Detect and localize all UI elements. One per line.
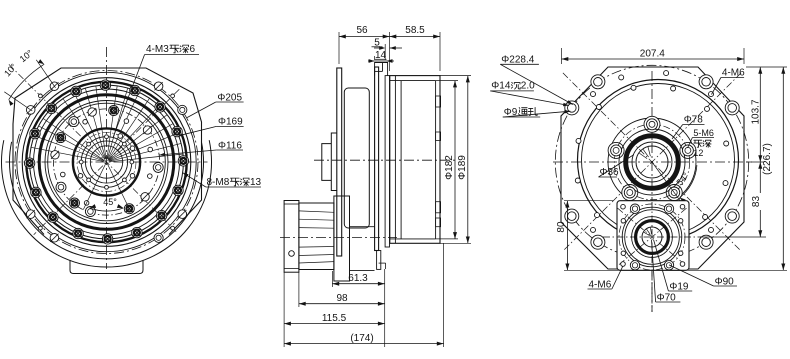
middle view reducer housing xyxy=(344,88,369,228)
middle view motor end cap xyxy=(284,201,299,273)
svg-text:103.7: 103.7 xyxy=(751,99,762,124)
middle view motor housing cylinder Φ189 xyxy=(390,76,441,244)
svg-text:13: 13 xyxy=(250,177,262,188)
svg-text:6: 6 xyxy=(190,44,196,55)
middle view motor body with fins xyxy=(299,203,334,270)
left view diagonal center line 135 xyxy=(9,64,177,232)
middle view rear square plate edge xyxy=(375,67,379,251)
dimension 5 xyxy=(372,38,403,61)
left view 45° angle dimension xyxy=(83,162,129,211)
left view bottom connector tab xyxy=(70,260,143,274)
svg-text:Φ169: Φ169 xyxy=(218,117,243,128)
dimensions Φ182 Φ189 xyxy=(436,76,471,244)
left view small holes on r45 xyxy=(61,119,153,205)
svg-text:(226.7): (226.7) xyxy=(762,143,773,175)
dimension (226.7) xyxy=(564,67,787,270)
left view hub thick circle xyxy=(73,128,140,195)
svg-text:80: 80 xyxy=(556,221,567,233)
left view horizontal center line xyxy=(6,161,208,163)
middle view hub step xyxy=(331,133,337,191)
svg-text:4-M6: 4-M6 xyxy=(722,68,745,79)
svg-text:58.5: 58.5 xyxy=(405,25,425,36)
svg-text:61.3: 61.3 xyxy=(348,273,368,284)
label 4-M6 bottom left xyxy=(588,266,623,290)
svg-text:98: 98 xyxy=(336,293,348,304)
left view perimeter screws on Φ205 BC xyxy=(26,82,187,243)
middle view motor axis center line xyxy=(280,236,397,238)
middle view mounting flange plate xyxy=(337,68,342,256)
left view diagonal center line 45 xyxy=(34,89,180,235)
left view circle r59 xyxy=(48,103,166,221)
right view vertical center line xyxy=(651,71,653,312)
label Φ228.4 xyxy=(500,55,573,105)
right view small M6 holes xyxy=(591,71,714,233)
right view output hub with 5-M6 flange xyxy=(608,116,696,206)
label Φ9 through hole xyxy=(503,107,571,118)
svg-text:Φ14: Φ14 xyxy=(491,81,511,92)
label Φ116 xyxy=(159,141,243,157)
dimension 103.7 xyxy=(746,67,787,162)
left view hub bolt circle 4-M3 (dash-dot) xyxy=(77,133,136,192)
middle view main axis center line xyxy=(314,159,458,161)
left view bolt circle Φ205 (dash-dot) xyxy=(15,71,198,254)
svg-text:Φ78: Φ78 xyxy=(684,115,704,126)
right view vertical center line lower xyxy=(651,202,653,312)
left view circle r89.7 xyxy=(17,72,196,251)
left view 8-M8 screw ring pattern on Φ169 BC xyxy=(24,80,188,244)
label 8-M8 tooth depth 13 xyxy=(183,173,262,188)
left view radial construction rays xyxy=(31,86,183,162)
middle view bottom step xyxy=(379,263,386,269)
right view Φ14/Φ9 counterbore holes xyxy=(565,75,739,249)
middle view spacer ring edge xyxy=(385,76,389,247)
label Φ14 counterbore 2.0 xyxy=(490,81,569,107)
right view diagonal center line 135 xyxy=(563,73,741,251)
svg-text:45°: 45° xyxy=(103,197,117,207)
middle view plate bottom tab xyxy=(377,251,381,270)
left view circle Φ169 xyxy=(30,85,184,239)
right view motor mount block xyxy=(617,201,689,271)
left view hub circle r21 xyxy=(85,141,127,183)
svg-text:(174): (174) xyxy=(350,333,373,344)
right view 54° dimension xyxy=(652,162,697,203)
right view motor axis center line xyxy=(603,236,701,238)
left view tiny holes at diagonals xyxy=(39,94,175,230)
svg-text:115.5: 115.5 xyxy=(322,313,347,324)
right view diagonal center line 45 xyxy=(563,73,741,251)
left view circle r61.5 xyxy=(45,101,168,224)
left view thick circle r67 xyxy=(39,95,174,230)
svg-text:8-M8: 8-M8 xyxy=(207,177,230,188)
dimension 207.4 xyxy=(562,48,745,64)
svg-text:2.0: 2.0 xyxy=(521,81,535,92)
svg-text:4-M3: 4-M3 xyxy=(146,44,169,55)
svg-text:Φ189: Φ189 xyxy=(457,155,468,180)
label 4-M6 top right xyxy=(712,68,746,95)
label Φ205 xyxy=(187,93,244,118)
right view horizontal center line xyxy=(553,161,752,163)
left view hub bore circle xyxy=(90,146,122,178)
dimension 14 xyxy=(368,50,394,63)
label Φ169 xyxy=(179,117,244,136)
svg-text:Φ182: Φ182 xyxy=(444,155,455,180)
left view circle r84 xyxy=(22,78,191,247)
right view small holes on housing rim xyxy=(575,85,728,219)
dimensions 61.3 98 115.5 (174) xyxy=(284,243,444,347)
middle view output shaft hub xyxy=(322,144,332,181)
label Φ90 xyxy=(669,265,737,288)
label Φ78 xyxy=(672,115,705,140)
label 4-M3 tooth depth 6 xyxy=(113,44,199,137)
svg-text:56: 56 xyxy=(356,25,368,36)
left view hub circle r25 xyxy=(81,137,132,188)
label 5-M6 tooth depth 12 xyxy=(688,128,715,158)
dimension 83 xyxy=(700,162,766,237)
label Φ19 xyxy=(654,240,693,293)
dimension 56 and 58.5 xyxy=(339,25,440,71)
left view outer housing circle arc xyxy=(1,140,211,267)
middle view top step detail xyxy=(375,63,388,76)
left view housing step circle arc xyxy=(9,142,203,259)
svg-text:Φ228.4: Φ228.4 xyxy=(501,55,534,66)
label Φ36 xyxy=(599,155,634,178)
svg-text:Φ36: Φ36 xyxy=(600,167,620,178)
middle view motor adapter and belt housing xyxy=(334,196,375,281)
svg-text:5-M6: 5-M6 xyxy=(693,128,714,138)
left view mounting plate outline xyxy=(13,68,202,235)
left view vertical center line xyxy=(106,47,108,269)
dimension 80 xyxy=(556,201,613,271)
left view thick circle r80 xyxy=(26,82,186,242)
svg-text:12: 12 xyxy=(693,148,703,158)
left view 10° angle dimensions xyxy=(2,48,55,111)
right view square plate outline xyxy=(561,67,744,269)
right view motor hub diagonals xyxy=(618,208,687,266)
svg-text:207.4: 207.4 xyxy=(640,49,665,60)
right view bolt circle Φ228.4 (dash-dot) xyxy=(555,65,748,258)
left view circle r73 xyxy=(34,89,180,235)
svg-text:83: 83 xyxy=(751,196,762,208)
label Φ70 xyxy=(652,240,681,304)
left view 4-M3 holes on hub xyxy=(78,134,135,190)
left view bolt circle Φ116 (dash-dot) xyxy=(53,109,159,215)
right view motor shaft hub and bolt pattern xyxy=(619,204,685,270)
right view housing circle outer xyxy=(578,80,739,241)
left view bolt holes on Φ116 BC xyxy=(51,106,163,217)
right view housing circle inner xyxy=(582,84,735,237)
